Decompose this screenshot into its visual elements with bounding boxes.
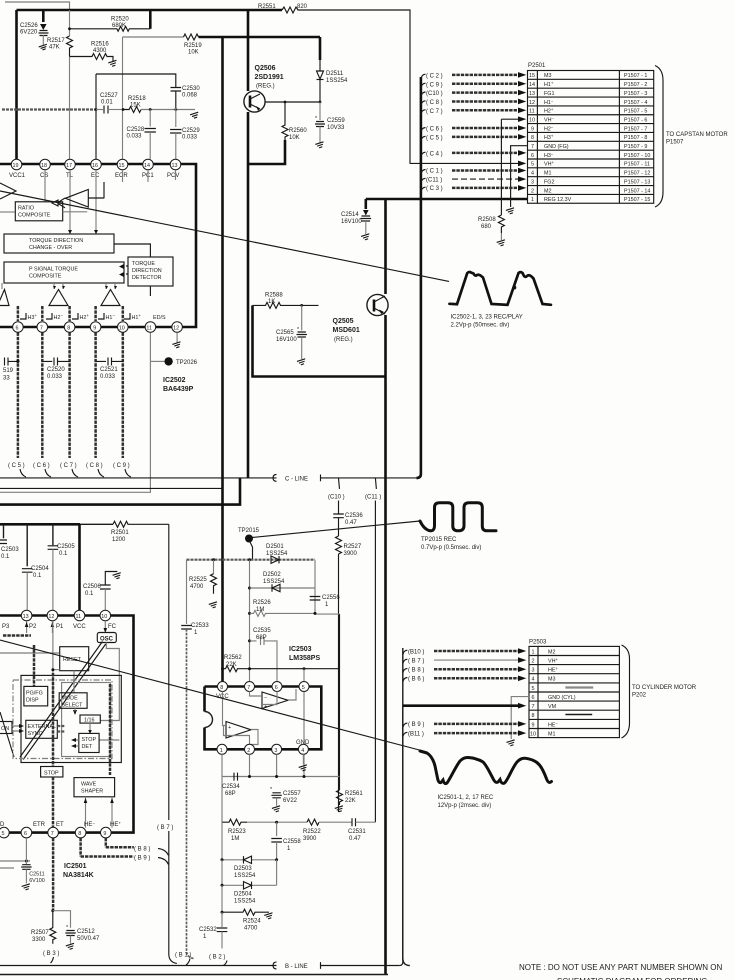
svg-text:0.1: 0.1 bbox=[59, 551, 68, 557]
bottom pin labels bbox=[0, 821, 121, 829]
wire VH- row bbox=[501, 116, 526, 122]
wire ECR pin line bbox=[122, 37, 124, 159]
svg-text:C2514: C2514 bbox=[341, 212, 359, 218]
resistor R2588 bbox=[253, 293, 319, 309]
svg-text:7: 7 bbox=[247, 685, 250, 691]
pin 12 bbox=[172, 322, 183, 333]
ground pin4 bbox=[299, 754, 309, 771]
svg-text:(B11 ): (B11 ) bbox=[408, 731, 424, 737]
wire thick lower horizontal bbox=[0, 478, 240, 505]
resistor R2507 bbox=[31, 911, 56, 944]
svg-text:(REG.): (REG.) bbox=[256, 84, 275, 90]
svg-text:14: 14 bbox=[529, 82, 535, 88]
box OSC bbox=[97, 633, 119, 741]
svg-text:P1507 - 14: P1507 - 14 bbox=[624, 188, 650, 194]
small L hooks + labels at bottom pins bbox=[20, 313, 166, 321]
svg-text:D2511: D2511 bbox=[326, 71, 344, 77]
svg-text:VCC1: VCC1 bbox=[9, 173, 26, 179]
svg-text:C2559: C2559 bbox=[327, 118, 345, 124]
B bus vertical bbox=[403, 648, 410, 966]
capacitor C2559 bbox=[315, 102, 345, 149]
svg-text:10: 10 bbox=[530, 731, 536, 737]
pin 19 bbox=[9, 159, 26, 179]
op-amp B internals bbox=[223, 692, 259, 745]
svg-text:0.1: 0.1 bbox=[1, 554, 10, 560]
svg-text:3: 3 bbox=[274, 748, 277, 754]
svg-text:0.033: 0.033 bbox=[182, 135, 198, 141]
resistor R2562 bbox=[221, 655, 340, 672]
svg-text:1200: 1200 bbox=[112, 537, 126, 543]
wire pin15/14 stubs bbox=[123, 170, 176, 182]
svg-text:FC: FC bbox=[108, 624, 117, 630]
svg-text:7: 7 bbox=[51, 831, 54, 837]
svg-text:TP2015 REC: TP2015 REC bbox=[421, 537, 457, 543]
box EXTERNAL SYNC bbox=[26, 720, 58, 738]
svg-text:P1507: P1507 bbox=[666, 140, 684, 146]
svg-text:M3: M3 bbox=[548, 677, 556, 683]
svg-text:( B 8 ): ( B 8 ) bbox=[408, 668, 424, 674]
wire pin7 column bbox=[249, 560, 251, 682]
pin 17 bbox=[65, 159, 76, 179]
svg-text:C2511: C2511 bbox=[29, 872, 44, 878]
svg-text:13: 13 bbox=[529, 91, 535, 97]
pin 5 (cut) bbox=[0, 827, 9, 838]
svg-text:STOP: STOP bbox=[82, 737, 97, 743]
pin 7 bbox=[245, 682, 255, 692]
pin 6 bbox=[21, 827, 32, 838]
node B2 bbox=[209, 955, 227, 966]
inner box B dash-dot bbox=[13, 680, 112, 759]
svg-text:9: 9 bbox=[103, 831, 106, 837]
pin 9 bbox=[101, 827, 112, 838]
left edge stubs bottom bbox=[0, 861, 26, 868]
ground GND(FG) bbox=[506, 208, 516, 215]
svg-text:D2504: D2504 bbox=[234, 892, 252, 898]
capacitor C2531 bbox=[348, 818, 375, 842]
svg-text:TORQUE: TORQUE bbox=[132, 261, 155, 267]
svg-text:0.033: 0.033 bbox=[47, 374, 63, 380]
wire GND CYL bbox=[506, 697, 529, 747]
wires WS to pins 8,9 bbox=[86, 797, 113, 828]
node C9 bbox=[421, 81, 526, 88]
svg-text:C2535: C2535 bbox=[253, 628, 271, 634]
svg-text:C2558: C2558 bbox=[283, 839, 301, 845]
svg-text:C2506: C2506 bbox=[83, 584, 101, 590]
svg-text:1: 1 bbox=[531, 197, 534, 203]
svg-text:R2519: R2519 bbox=[184, 43, 202, 49]
svg-text:9: 9 bbox=[531, 126, 534, 132]
svg-text:( C 9 ): ( C 9 ) bbox=[426, 82, 443, 88]
svg-text:1SS254: 1SS254 bbox=[326, 78, 348, 84]
svg-text:M1: M1 bbox=[548, 731, 556, 737]
svg-text:1SS254: 1SS254 bbox=[234, 899, 256, 905]
svg-text:( C 6 ): ( C 6 ) bbox=[33, 463, 50, 469]
svg-text:ON: ON bbox=[1, 726, 9, 732]
svg-text:DETECTOR: DETECTOR bbox=[132, 275, 162, 281]
svg-text:M2: M2 bbox=[544, 188, 552, 194]
svg-text:820: 820 bbox=[297, 4, 308, 10]
pin 6 bbox=[13, 322, 24, 333]
wire pin16 into box bbox=[95, 170, 97, 234]
wire HE- to B9 bbox=[81, 838, 169, 865]
svg-text:1/16: 1/16 bbox=[84, 718, 95, 724]
node C10 stem bbox=[328, 478, 345, 514]
node B1 bbox=[175, 953, 191, 966]
svg-text:CS: CS bbox=[40, 173, 48, 179]
node C1 bbox=[421, 168, 526, 175]
svg-text:( C 3 ): ( C 3 ) bbox=[426, 186, 443, 192]
svg-text:3900: 3900 bbox=[344, 551, 358, 557]
svg-text:11: 11 bbox=[76, 614, 82, 620]
svg-text:C2503: C2503 bbox=[1, 547, 19, 553]
brace to capstan motor bbox=[655, 66, 663, 208]
resistor R2560 bbox=[248, 101, 307, 164]
wire VCC1 drop bbox=[15, 10, 18, 159]
svg-text:6: 6 bbox=[275, 685, 278, 691]
op-amp IC2502 outline bbox=[0, 164, 196, 327]
capacitor C2533 bbox=[181, 623, 209, 959]
svg-text:CHANGE - OVER: CHANGE - OVER bbox=[29, 245, 72, 251]
resistor R2525 bbox=[189, 560, 218, 609]
svg-text:1K: 1K bbox=[268, 299, 275, 305]
svg-text:RESET: RESET bbox=[63, 657, 82, 663]
svg-text:C2527: C2527 bbox=[100, 93, 118, 99]
wire B-LINE bbox=[0, 706, 403, 970]
svg-text:6: 6 bbox=[531, 153, 534, 159]
pin 10 bbox=[118, 322, 129, 333]
svg-text:−: − bbox=[264, 695, 267, 701]
op-amp IC2503 outline bbox=[205, 687, 322, 750]
capacitor C2512 bbox=[53, 911, 100, 950]
ground pin12 bbox=[172, 333, 182, 349]
pointer line to waveform 3 bbox=[0, 640, 427, 752]
svg-text:7: 7 bbox=[532, 704, 535, 710]
svg-text:4300: 4300 bbox=[93, 48, 107, 54]
svg-text:R2562: R2562 bbox=[224, 655, 242, 661]
capacitor C2528 bbox=[127, 108, 156, 159]
svg-text:B - LINE: B - LINE bbox=[285, 964, 308, 970]
svg-text:D: D bbox=[0, 822, 5, 828]
svg-text:MODE: MODE bbox=[62, 696, 79, 702]
arrows TD detector to P-sig bbox=[126, 266, 128, 274]
svg-text:SELECT: SELECT bbox=[62, 703, 84, 709]
svg-text:( C 8 ): ( C 8 ) bbox=[86, 463, 103, 469]
svg-text:9: 9 bbox=[93, 326, 96, 332]
test point TP2026 bbox=[150, 357, 197, 366]
svg-text:2.2Vp-p (50msec. div): 2.2Vp-p (50msec. div) bbox=[451, 323, 510, 329]
node C8 bbox=[421, 99, 526, 106]
svg-text:−: − bbox=[228, 734, 231, 740]
svg-text:10K: 10K bbox=[289, 135, 300, 141]
wire HE+ to B8 bbox=[106, 838, 169, 855]
svg-text:10K: 10K bbox=[188, 50, 199, 56]
capacitor C2504 bbox=[22, 524, 49, 610]
svg-text:IC2503: IC2503 bbox=[289, 646, 312, 653]
wire GND(FG) row bbox=[511, 146, 528, 207]
svg-text:( B 7 ): ( B 7 ) bbox=[408, 658, 424, 664]
svg-text:TP2026: TP2026 bbox=[176, 360, 198, 366]
wire B7 drop bbox=[168, 524, 170, 820]
wire pin5 column bbox=[303, 669, 305, 777]
svg-text:(C11 ): (C11 ) bbox=[426, 177, 442, 183]
svg-text:SHAPER: SHAPER bbox=[81, 789, 103, 795]
box RATIO COMPOSITE bbox=[0, 202, 87, 221]
svg-text:5: 5 bbox=[2, 831, 5, 837]
svg-text:33: 33 bbox=[3, 376, 10, 382]
node C6 bbox=[421, 125, 526, 132]
svg-text:D2502: D2502 bbox=[263, 572, 281, 578]
svg-text:2SD1991: 2SD1991 bbox=[255, 74, 284, 81]
svg-text:P1507 - 15: P1507 - 15 bbox=[624, 197, 650, 203]
svg-text:1SS254: 1SS254 bbox=[266, 551, 288, 557]
node C3 bbox=[421, 185, 526, 192]
svg-text:IC2502: IC2502 bbox=[163, 377, 186, 384]
pin 11 bbox=[145, 322, 156, 333]
pin 4 bbox=[296, 740, 310, 754]
svg-text:P2: P2 bbox=[29, 624, 37, 630]
wire EC pin line bbox=[95, 74, 97, 159]
capacitor C2520 bbox=[42, 358, 69, 381]
node B3 bbox=[43, 951, 59, 963]
svg-text:68P: 68P bbox=[225, 791, 236, 797]
svg-text:( B 1 ): ( B 1 ) bbox=[175, 953, 191, 959]
svg-text:1M: 1M bbox=[256, 607, 264, 613]
svg-text:15K: 15K bbox=[130, 102, 141, 108]
inner box A bbox=[21, 675, 121, 762]
pin 13 bbox=[21, 610, 32, 621]
svg-text:13: 13 bbox=[23, 614, 29, 620]
svg-text:12: 12 bbox=[529, 100, 535, 106]
svg-text:PCV: PCV bbox=[167, 173, 179, 179]
box TORQUE DIRECTION CHANGE-OVER bbox=[4, 234, 114, 253]
node C4 bbox=[421, 150, 526, 157]
svg-text:MSD601: MSD601 bbox=[333, 327, 360, 334]
svg-text:6V100: 6V100 bbox=[29, 878, 45, 884]
wire right column bbox=[315, 560, 340, 614]
capacitor C2535 bbox=[248, 628, 277, 682]
pin 16 bbox=[91, 159, 102, 179]
svg-text:( C 8 ): ( C 8 ) bbox=[426, 100, 443, 106]
wire VH+ row bbox=[410, 161, 526, 167]
svg-text:TO CAPSTAN MOTOR: TO CAPSTAN MOTOR bbox=[666, 132, 728, 138]
svg-text:7: 7 bbox=[40, 326, 43, 332]
wire VH- drop to R2508 bbox=[500, 119, 502, 215]
pin 8 bbox=[75, 827, 86, 838]
svg-text:GND (CYL): GND (CYL) bbox=[548, 695, 576, 701]
svg-text:( C 7 ): ( C 7 ) bbox=[426, 109, 443, 115]
svg-text:1SS254: 1SS254 bbox=[234, 873, 256, 879]
box STOP DET bbox=[79, 733, 99, 752]
wire VCC drop bbox=[78, 524, 81, 610]
svg-text:6: 6 bbox=[24, 831, 27, 837]
left edge diagonal bbox=[0, 712, 14, 757]
amp triangle (DA) pointing left bbox=[65, 182, 104, 207]
svg-text:VCC: VCC bbox=[73, 624, 86, 630]
wire Q2506 emitter bbox=[265, 101, 320, 103]
svg-text:ED/S: ED/S bbox=[153, 315, 166, 321]
amp triangles above bottom pins bbox=[0, 290, 120, 306]
op-amp A internals bbox=[250, 689, 297, 710]
svg-text:COMPOSITE: COMPOSITE bbox=[29, 274, 62, 280]
svg-text:( B 6 ): ( B 6 ) bbox=[408, 677, 424, 683]
wires P-sig to amps bbox=[2, 283, 115, 289]
capacitor C2505 bbox=[48, 524, 76, 610]
svg-text:10: 10 bbox=[101, 614, 107, 620]
svg-text:P1507 - 9: P1507 - 9 bbox=[624, 144, 647, 150]
capacitor C2526 bbox=[20, 10, 49, 51]
svg-text:13: 13 bbox=[172, 163, 178, 169]
svg-text:TO CYLINDER MOTOR: TO CYLINDER MOTOR bbox=[632, 685, 697, 691]
svg-text:STOP: STOP bbox=[44, 771, 59, 777]
svg-text:M3: M3 bbox=[544, 73, 552, 79]
svg-text:R2560: R2560 bbox=[289, 128, 307, 134]
svg-text:P1507 - 11: P1507 - 11 bbox=[624, 162, 650, 168]
svg-text:C2504: C2504 bbox=[31, 566, 49, 572]
svg-text:M1: M1 bbox=[544, 171, 552, 177]
svg-text:( B 9 ): ( B 9 ) bbox=[134, 856, 150, 862]
svg-text:C2521: C2521 bbox=[100, 367, 118, 373]
svg-text:P1507 - 1: P1507 - 1 bbox=[624, 73, 647, 79]
box RESET bbox=[51, 621, 88, 700]
svg-text:50V0.47: 50V0.47 bbox=[77, 936, 100, 942]
svg-text:19: 19 bbox=[13, 163, 19, 169]
svg-text:R2523: R2523 bbox=[228, 829, 246, 835]
resistor R2551 bbox=[258, 4, 410, 164]
waveform TP2015 REC bbox=[420, 503, 496, 551]
svg-text:R2526: R2526 bbox=[253, 600, 271, 606]
svg-text:P1507 - 12: P1507 - 12 bbox=[624, 171, 650, 177]
capacitor C2532 bbox=[199, 912, 227, 948]
svg-text:C2505: C2505 bbox=[57, 544, 75, 550]
svg-text:( C 6 ): ( C 6 ) bbox=[426, 127, 443, 133]
partial arrow at left edge bbox=[0, 183, 16, 199]
gray box top hatched wire bbox=[187, 559, 316, 561]
connector P2503 table bbox=[529, 640, 619, 738]
svg-text:8: 8 bbox=[78, 831, 81, 837]
svg-text:R2522: R2522 bbox=[303, 829, 321, 835]
svg-text:0.47: 0.47 bbox=[345, 520, 357, 526]
node C7 bbox=[421, 108, 526, 115]
pin labels bbox=[2, 624, 117, 630]
capacitor C2519 (cut) bbox=[3, 358, 20, 382]
svg-text:( B 7 ): ( B 7 ) bbox=[157, 825, 173, 831]
svg-text:( C 9 ): ( C 9 ) bbox=[113, 463, 130, 469]
hatched wires pins 6-10 down bbox=[18, 333, 123, 459]
wire pin18 into box bbox=[44, 170, 46, 202]
svg-text:BA6439P: BA6439P bbox=[163, 386, 194, 393]
svg-text:M2: M2 bbox=[548, 649, 556, 655]
svg-text:ET: ET bbox=[56, 822, 64, 828]
svg-text:DET: DET bbox=[82, 744, 93, 750]
svg-text:C2526: C2526 bbox=[20, 23, 38, 29]
svg-text:(B10 ): (B10 ) bbox=[408, 649, 424, 655]
svg-text:P1507 - 8: P1507 - 8 bbox=[624, 135, 647, 141]
node C5 bbox=[421, 134, 526, 141]
svg-text:4: 4 bbox=[301, 748, 304, 754]
svg-text:680K: 680K bbox=[112, 23, 126, 29]
node B7 bbox=[157, 825, 177, 964]
capacitor C2529 bbox=[170, 108, 200, 159]
svg-text:2: 2 bbox=[531, 188, 534, 194]
C bus vertical bbox=[416, 77, 421, 478]
capacitor C2511 bbox=[21, 838, 45, 891]
node B11 bbox=[403, 730, 527, 737]
svg-text:( C 1 ): ( C 1 ) bbox=[426, 169, 443, 175]
pin 2 bbox=[245, 744, 255, 754]
wire REG 12.3V line bbox=[366, 198, 528, 201]
svg-text:D2503: D2503 bbox=[234, 866, 252, 872]
svg-text:P1507 - 2: P1507 - 2 bbox=[624, 82, 647, 88]
resistor R2516 + ground bbox=[70, 42, 118, 68]
svg-text:( B 8 ): ( B 8 ) bbox=[134, 847, 150, 853]
svg-text:R2524: R2524 bbox=[243, 919, 261, 925]
svg-text:1: 1 bbox=[532, 649, 535, 655]
hatched stubs amps to pins bbox=[18, 306, 123, 321]
svg-text:(C11 ): (C11 ) bbox=[365, 495, 381, 501]
harness bubbles and wires bbox=[410, 72, 528, 207]
pin 7 bbox=[48, 827, 59, 838]
svg-text:NA3814K: NA3814K bbox=[63, 872, 94, 879]
svg-text:TORQUE DIRECTION: TORQUE DIRECTION bbox=[29, 238, 83, 244]
svg-text:R2516: R2516 bbox=[91, 42, 109, 48]
svg-text:10V33: 10V33 bbox=[327, 125, 345, 131]
svg-text:5: 5 bbox=[302, 685, 305, 691]
resistor R2517 bbox=[47, 10, 73, 56]
pin 10 bbox=[100, 610, 111, 621]
diode D2504 bbox=[221, 860, 277, 905]
svg-text:P3: P3 bbox=[2, 624, 10, 630]
svg-text:C2557: C2557 bbox=[283, 791, 301, 797]
svg-text:C2533: C2533 bbox=[191, 623, 209, 629]
svg-text:C2512: C2512 bbox=[77, 929, 95, 935]
svg-text:REG 12.3V: REG 12.3V bbox=[544, 197, 572, 203]
svg-text:0.1: 0.1 bbox=[85, 591, 94, 597]
inner box C bbox=[62, 683, 111, 757]
capacitor C2521 bbox=[96, 358, 123, 381]
svg-text:GND (FG): GND (FG) bbox=[544, 144, 569, 150]
waveform IC2501 REC bbox=[420, 751, 552, 809]
wire C10 column continues bbox=[339, 614, 341, 790]
resistor R2522 bbox=[303, 819, 352, 842]
svg-text:15: 15 bbox=[529, 73, 535, 79]
svg-text:EXTERNAL: EXTERNAL bbox=[28, 724, 56, 730]
svg-text:10: 10 bbox=[529, 118, 535, 124]
pin 8 bbox=[216, 682, 229, 701]
resistor R2561 bbox=[335, 790, 364, 813]
svg-text:68P: 68P bbox=[256, 635, 267, 641]
open arrow into ratio box bbox=[52, 198, 65, 208]
capacitor C2506 bbox=[83, 572, 122, 611]
svg-text:R2520: R2520 bbox=[111, 17, 129, 23]
svg-text:C2565: C2565 bbox=[276, 330, 294, 336]
op-amp IC2501 outline bbox=[0, 616, 134, 833]
svg-text:(C10 ): (C10 ) bbox=[328, 495, 345, 501]
resistor R2518 bbox=[122, 96, 200, 119]
waveform IC2502 REC/PLAY bbox=[449, 272, 551, 328]
pin 11 bbox=[74, 610, 85, 621]
wire pin 11 down bbox=[0, 333, 150, 493]
svg-text:8: 8 bbox=[531, 135, 534, 141]
arrows into TDC box top bbox=[68, 230, 98, 234]
svg-text:P1507 - 6: P1507 - 6 bbox=[624, 118, 647, 124]
svg-text:R2518: R2518 bbox=[128, 96, 146, 102]
svg-text:P202: P202 bbox=[632, 693, 647, 699]
svg-text:NOTE : DO NOT USE ANY PART NU: NOTE : DO NOT USE ANY PART NUMBER SHOWN … bbox=[519, 963, 723, 972]
box ON (cut) bbox=[0, 722, 12, 734]
resistor R2526 bbox=[248, 600, 317, 616]
capacitor C2503 (cut) bbox=[0, 524, 19, 560]
svg-text:680: 680 bbox=[481, 224, 492, 230]
